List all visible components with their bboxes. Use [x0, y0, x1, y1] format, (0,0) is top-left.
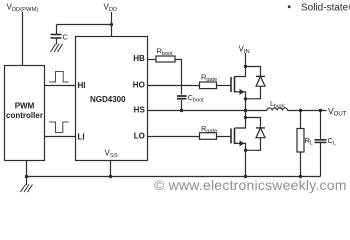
svg-text:PWM: PWM: [15, 102, 35, 111]
svg-text:HO: HO: [133, 81, 145, 90]
svg-text:C: C: [63, 33, 69, 42]
svg-text:NGD4300: NGD4300: [90, 95, 126, 104]
svg-text:© www.electronicsweekly.com: © www.electronicsweekly.com: [154, 177, 347, 193]
svg-text:HI: HI: [78, 81, 86, 90]
svg-text:Solid-state: Solid-state: [301, 3, 349, 14]
svg-text:HS: HS: [134, 106, 146, 115]
svg-text:LO: LO: [134, 132, 145, 141]
svg-text:HB: HB: [133, 54, 145, 63]
svg-text:LI: LI: [78, 133, 85, 142]
svg-text:controller: controller: [6, 111, 43, 120]
